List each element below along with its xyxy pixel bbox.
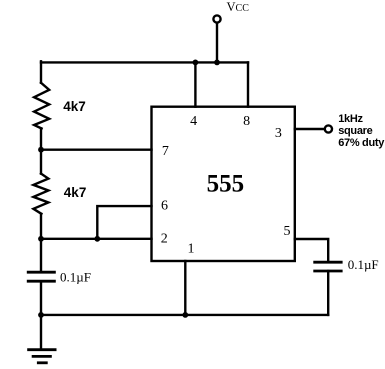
IC U1 555 body bbox=[152, 107, 295, 261]
wire top supply bus bbox=[41, 61, 248, 63]
svg-text:VCC: VCC bbox=[227, 0, 250, 14]
wire C2 to ground bus bbox=[327, 271, 329, 315]
wire node B to pin 2 bbox=[41, 238, 152, 240]
junction dot pin-6 tap bbox=[94, 236, 100, 242]
wire node A to R2 bbox=[40, 150, 42, 174]
wire R1 to node A bbox=[40, 129, 42, 150]
svg-text:555: 555 bbox=[207, 170, 245, 197]
wire Vcc stem bbox=[216, 24, 218, 63]
wire C1 to ground node bbox=[40, 281, 42, 315]
junction dot ground node bbox=[38, 312, 44, 318]
svg-text:6: 6 bbox=[161, 198, 168, 213]
wire pin 6 link bbox=[97, 206, 151, 239]
wire pin 1 drop bbox=[184, 261, 186, 315]
wire pin 3 output bbox=[295, 128, 324, 130]
svg-text:4k7: 4k7 bbox=[63, 99, 86, 114]
resistor R2 bbox=[33, 174, 48, 214]
ground symbol bbox=[29, 350, 55, 363]
node A junction dot bbox=[38, 147, 44, 153]
capacitor C1 bbox=[28, 272, 54, 281]
node B junction dot bbox=[38, 236, 44, 242]
junction dot Vcc tap bbox=[214, 60, 220, 66]
svg-text:5: 5 bbox=[284, 224, 291, 239]
svg-text:3: 3 bbox=[275, 126, 282, 141]
svg-text:4: 4 bbox=[190, 114, 197, 129]
svg-text:1kHzsquare67% duty: 1kHzsquare67% duty bbox=[338, 113, 385, 149]
junction dot pin-1 tap bbox=[182, 312, 188, 318]
wire node A to pin 7 bbox=[41, 148, 152, 150]
svg-text:2: 2 bbox=[161, 232, 168, 247]
wire left rail top to R1 bbox=[40, 61, 42, 83]
wire pin 8 drop bbox=[247, 62, 249, 106]
wire ground stem bbox=[40, 315, 42, 350]
terminal Vcc bbox=[213, 15, 220, 22]
wire pin 5 to C2 bbox=[295, 239, 328, 262]
wire R2 to node B bbox=[40, 214, 42, 239]
wire bottom ground bus bbox=[41, 314, 328, 316]
wire pin 4 drop bbox=[194, 62, 196, 106]
svg-text:1: 1 bbox=[188, 242, 195, 257]
terminal output bbox=[325, 125, 332, 132]
wire node B to C1 bbox=[40, 239, 42, 272]
svg-text:4k7: 4k7 bbox=[64, 185, 87, 200]
junction dot pin-4 tap bbox=[193, 60, 199, 66]
svg-text:7: 7 bbox=[162, 144, 169, 159]
capacitor C2 bbox=[315, 262, 342, 271]
resistor R1 bbox=[34, 83, 49, 129]
svg-text:8: 8 bbox=[243, 114, 250, 129]
svg-text:0.1µF: 0.1µF bbox=[348, 257, 379, 272]
svg-text:0.1µF: 0.1µF bbox=[60, 269, 91, 284]
